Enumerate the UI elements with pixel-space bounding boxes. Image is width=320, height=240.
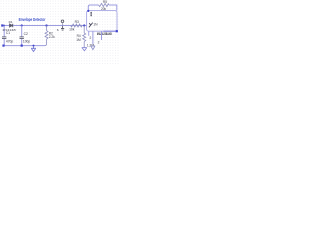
capacitor C1 wire lower	[3, 39, 5, 46]
node junction at C1 branch	[3, 25, 5, 27]
svg-text:20k: 20k	[101, 7, 107, 11]
diode D1	[10, 24, 13, 27]
wire: probe stem	[62, 23, 64, 25]
svg-text:C2: C2	[24, 32, 28, 36]
resistor R2 (vertical)	[45, 26, 48, 46]
op-amp input glyph	[89, 23, 93, 28]
pin stub: box bottom pin 5	[101, 31, 103, 40]
pin stub: box bottom pin 2	[92, 31, 94, 44]
wire: diode cathode to op-amp input	[13, 25, 86, 27]
svg-text:1.2M: 1.2M	[87, 43, 94, 47]
svg-text:Envelope Detector: Envelope Detector	[19, 17, 46, 22]
capacitor C1 wire upper	[3, 26, 5, 37]
ground under R4	[82, 48, 87, 51]
svg-text:R5: R5	[103, 0, 107, 4]
capacitor C2 plates	[20, 36, 24, 38]
resistor R5 (horizontal feedback)	[99, 3, 109, 6]
wire: ground rail	[3, 45, 45, 47]
node: junction at ground stub	[33, 45, 35, 47]
resistor R3 (horizontal)	[71, 24, 83, 27]
svg-text:C1: C1	[6, 31, 10, 35]
pin name glyph top-left inside box	[91, 12, 92, 14]
node: junction on box top	[87, 10, 89, 12]
op-amp U1 body (rounded box)	[87, 11, 117, 32]
capacitor C1 plates	[2, 36, 6, 38]
pin stub: box bottom pin 4	[88, 31, 90, 36]
node: output end square	[116, 30, 118, 32]
capacitor C2 wire upper	[21, 26, 23, 37]
capacitor C2 wire lower	[21, 39, 23, 46]
wire: main input wire left of diode	[2, 25, 9, 27]
svg-text:2: 2	[98, 40, 100, 44]
wire: feedback right	[109, 5, 117, 11]
svg-text:10k: 10k	[69, 27, 75, 31]
node: rail square at C1	[2, 45, 4, 47]
wire: output along box bottom	[103, 30, 116, 32]
ground symbol on rail	[31, 46, 36, 52]
ground under pin 2	[91, 46, 96, 50]
svg-text:1N: 1N	[93, 22, 98, 26]
svg-text:MAX4238AXK: MAX4238AXK	[97, 32, 113, 36]
svg-text:1M: 1M	[76, 38, 81, 42]
svg-text:D1: D1	[9, 20, 13, 24]
node junction at R4 / op-amp input	[83, 24, 85, 26]
node: input terminal square	[1, 24, 3, 26]
ground: small ground under probe	[61, 28, 64, 30]
wire: feedback left vertical	[88, 5, 98, 11]
svg-text:2: 2	[90, 36, 92, 40]
resistor R4 (vertical)	[83, 26, 86, 48]
node: rail square at C2	[21, 45, 23, 47]
svg-text:470p: 470p	[6, 39, 14, 43]
node junction at C2 branch	[21, 24, 23, 26]
svg-text:2.2k: 2.2k	[49, 35, 55, 39]
svg-text:6.: 6.	[57, 28, 60, 32]
svg-text:R3: R3	[75, 20, 79, 24]
svg-text:100p: 100p	[23, 39, 31, 43]
node junction at R2 branch	[45, 24, 47, 26]
net port: probe ring above wire	[61, 20, 64, 23]
